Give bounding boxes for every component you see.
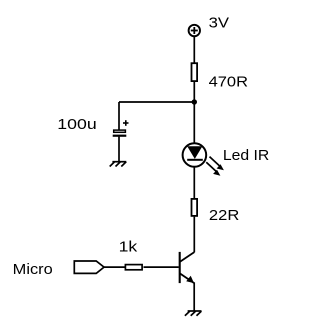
wire down to capacitor top plate: [118, 102, 120, 130]
capacitor C 100u negative plate: [113, 135, 127, 137]
emitter arrowhead: [186, 276, 194, 283]
port Micro connector: [74, 261, 104, 273]
LED anode triangle: [187, 146, 202, 159]
wire LED to resistor 22R: [193, 166, 195, 199]
svg-text:Led IR: Led IR: [223, 147, 270, 164]
base bar: [179, 252, 181, 283]
svg-text:470R: 470R: [209, 74, 249, 91]
capacitor C 100u positive plate: [114, 130, 126, 132]
wire R 470R bottom through junction to LED top: [193, 82, 195, 144]
svg-text:Micro: Micro: [13, 261, 53, 278]
svg-text:22R: 22R: [209, 207, 240, 224]
power supply terminal +3V: [189, 25, 200, 36]
wire base: port to 1k resistor: [104, 266, 125, 268]
resistor 22R: [192, 199, 198, 216]
LED light arrow 1: [210, 157, 224, 171]
ground (capacitor branch): [110, 162, 127, 167]
LED cathode bar: [187, 159, 203, 161]
emitter diagonal: [180, 274, 194, 283]
svg-text:1k: 1k: [119, 238, 138, 255]
resistor 1k: [125, 265, 142, 270]
polarity plus mark: [123, 120, 129, 126]
wire 22R to transistor collector: [193, 217, 195, 253]
wire emitter to ground: [193, 282, 195, 310]
resistor 470R: [192, 63, 198, 81]
transistor Q1 NPN: [180, 252, 195, 283]
collector diagonal: [180, 252, 195, 262]
wire junction to capacitor branch: [119, 101, 194, 103]
wire power to R 470R: [193, 37, 195, 63]
wire capacitor to ground: [118, 137, 120, 161]
ground (emitter): [185, 311, 202, 316]
LED circle: [183, 143, 207, 167]
junction node dot: [192, 99, 197, 104]
LED light arrow 2: [206, 162, 220, 176]
wire base: 1k resistor to transistor base: [144, 266, 179, 268]
svg-text:100u: 100u: [57, 116, 96, 133]
svg-text:3V: 3V: [209, 14, 229, 31]
